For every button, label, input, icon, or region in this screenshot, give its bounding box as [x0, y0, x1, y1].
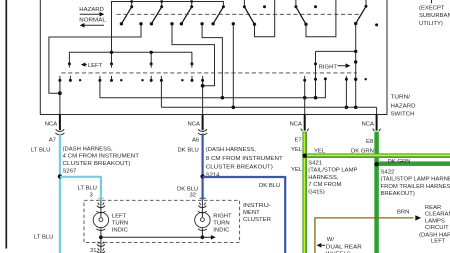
turn/hazard switch box — [40, 0, 387, 115]
svg-text:NCA: NCA — [45, 122, 58, 128]
label NORMAL with arrow — [79, 17, 106, 27]
svg-text:HAZARD: HAZARD — [79, 7, 104, 13]
svg-text:YEL: YEL — [291, 167, 303, 173]
splice S422 — [374, 162, 379, 167]
svg-text:(TAIL/STOP LAMP: (TAIL/STOP LAMP — [308, 168, 357, 174]
hazard lamp bridge 1 pivot — [243, 0, 256, 26]
label (DASH HARNESS, 4 CM FROM INSTRUMENT CLUSTER BREAKOUT) S267 — [63, 146, 140, 174]
wire: contact to rail2 — [160, 76, 163, 107]
svg-text:DK BLU: DK BLU — [259, 183, 280, 189]
svg-text:DK BLU: DK BLU — [178, 148, 199, 154]
free contact dot — [314, 5, 317, 8]
svg-text:INSTRU-: INSTRU- — [243, 203, 271, 209]
lamp L1 ground wire — [100, 228, 102, 253]
instrument cluster dashed box — [84, 200, 240, 242]
svg-text:4 CM FROM INSTRUMENT: 4 CM FROM INSTRUMENT — [63, 154, 140, 160]
splice S214 — [200, 174, 204, 178]
hazard lamp bridge 2 pivot — [294, 0, 307, 26]
ground rail junction — [99, 235, 103, 239]
label INSTRU-MENT CLUSTER — [243, 203, 271, 223]
svg-text:31: 31 — [90, 248, 97, 253]
svg-text:NORMAL: NORMAL — [79, 17, 106, 23]
right turn switch pole — [354, 0, 368, 25]
free contact dot — [375, 23, 378, 26]
turn upper contacts — [68, 62, 193, 67]
wire BRN — [315, 218, 414, 253]
wire DK BLU main — [202, 134, 204, 200]
label LEFT TURN INDIC — [112, 214, 129, 234]
svg-text:LT BLU: LT BLU — [31, 148, 50, 154]
hazard lamp bridge 1 — [255, 0, 275, 37]
rail2 — [161, 106, 376, 110]
right feed rail — [316, 50, 356, 52]
pin 31 connector — [97, 242, 105, 247]
svg-text:INDIC: INDIC — [213, 228, 230, 234]
turn lower contacts group 2 — [110, 76, 123, 82]
lamp L1 pin 3 connector — [97, 203, 105, 208]
svg-text:RIGHT: RIGHT — [319, 65, 338, 71]
label TURN/HAZARD SWITCH — [391, 94, 416, 117]
svg-text:32: 32 — [190, 193, 197, 199]
svg-text:YEL: YEL — [314, 148, 326, 154]
wire: hazard contact 3 to rail1 — [202, 25, 222, 98]
svg-text:HAZARD: HAZARD — [391, 103, 416, 109]
svg-text:FROM TRAILER HARNESS: FROM TRAILER HARNESS — [381, 184, 450, 190]
wire LT BLU main — [59, 134, 61, 253]
svg-text:NCA: NCA — [362, 121, 375, 127]
svg-text:G415): G415) — [308, 189, 324, 195]
splice S421 — [302, 153, 307, 158]
label (EXECPT SUBURBAN, UTILITY) — [419, 6, 450, 27]
label REAR CLEARANCE LAMPS CIRCUIT — [425, 205, 450, 231]
svg-text:(EXECPT: (EXECPT — [419, 6, 445, 12]
wire: right pole down to rail2 — [354, 24, 357, 108]
label S421 (TAIL/STOP LAMP HARNESS, 7 CM FROM G415) — [308, 161, 357, 196]
rail junction at lamp 2 — [201, 235, 205, 239]
wire: contact to rail2 — [345, 76, 348, 107]
svg-text:(DASH HARNESS,: (DASH HARNESS, — [63, 146, 113, 152]
svg-text:YEL: YEL — [291, 147, 303, 153]
W/ DUAL REAR WHEELS pointer — [317, 243, 326, 248]
svg-text:SUBURBAN,: SUBURBAN, — [419, 13, 450, 19]
wire: contact to rail1 — [98, 76, 101, 98]
svg-text:LEFT: LEFT — [112, 214, 127, 220]
wire: hazard contact 1 to A7 junction — [49, 25, 141, 93]
hazard linkage dashed line — [117, 13, 359, 15]
svg-text:DK BLU: DK BLU — [177, 186, 198, 192]
svg-text:CLUSTER BREAKOUT): CLUSTER BREAKOUT) — [63, 161, 131, 167]
right turn indicator bulb — [195, 211, 210, 230]
svg-text:LT BLU: LT BLU — [34, 234, 53, 240]
free contact dot — [365, 78, 367, 80]
turn lower contacts group 1 — [69, 76, 81, 82]
svg-text:A6: A6 — [192, 138, 200, 144]
turn linkage dashed line — [61, 72, 357, 74]
svg-text:TURN: TURN — [213, 221, 229, 227]
svg-text:NCA: NCA — [290, 121, 303, 127]
left harness edge line — [5, 0, 7, 249]
wire A7 lead to connector — [59, 115, 61, 131]
label S422 (TAIL/STOP LAMP HARNESS, FROM TRAILER HARNESS BREAKOUT) — [381, 170, 450, 198]
wire: right rail drop to rail1 — [314, 51, 317, 97]
svg-text:MENT: MENT — [243, 210, 260, 216]
svg-text:BRN: BRN — [397, 210, 409, 216]
label (DASH HARNESS, 8 CM FROM INSTRUMENT CLUSTER BREAKOUT) S214 — [206, 147, 283, 178]
lamp L2 pin 32 connector — [198, 203, 206, 208]
connector A7 — [55, 129, 64, 135]
pin tick 32 — [200, 197, 206, 199]
wire: hazard contact 2 to A6 junction — [172, 25, 215, 86]
wire: A7 contact down through box — [58, 76, 62, 115]
wire YEL branch to right edge — [305, 153, 450, 158]
wire A6 lead to connector — [202, 115, 204, 131]
rail continuation arrow — [202, 235, 215, 240]
hazard switch pole 3 — [180, 2, 194, 26]
svg-text:DK GRN: DK GRN — [351, 148, 374, 154]
svg-text:LEFT: LEFT — [88, 63, 103, 69]
splice S267 — [58, 174, 62, 178]
svg-text:TURN: TURN — [112, 221, 128, 227]
wire DK GRN main — [374, 132, 379, 253]
svg-text:CLUSTER: CLUSTER — [243, 217, 271, 223]
wire: hazard contact 4 to rail2 — [232, 25, 234, 107]
turn feed rail — [69, 52, 191, 64]
turn lower contacts group 4 — [181, 76, 193, 82]
wire LT BLU branch to cluster — [60, 177, 101, 200]
svg-text:CLEARANCE: CLEARANCE — [425, 212, 450, 218]
svg-text:SWITCH: SWITCH — [391, 111, 415, 117]
lamp L2 bottom lead — [201, 228, 203, 238]
wire DK BLU branch to bottom — [203, 177, 286, 253]
svg-text:8 CM FROM INSTRUMENT: 8 CM FROM INSTRUMENT — [206, 156, 283, 162]
wire: A6 contact down through box — [201, 76, 205, 115]
svg-text:E7: E7 — [295, 138, 302, 144]
hazard fixed contacts — [139, 22, 235, 25]
lamp L2 lead — [201, 200, 203, 213]
label W/ DUAL REAR WHEELS — [326, 237, 362, 253]
svg-text:(DASH HARNESS,: (DASH HARNESS, — [206, 147, 256, 153]
svg-text:W/: W/ — [327, 237, 335, 243]
rail1 — [100, 77, 327, 99]
rail drops — [111, 52, 113, 64]
svg-text:(TAIL/STOP LAMP HARNESS,: (TAIL/STOP LAMP HARNESS, — [381, 177, 450, 183]
svg-text:TURN/: TURN/ — [391, 94, 411, 100]
svg-text:CLUSTER BREAKOUT): CLUSTER BREAKOUT) — [206, 164, 273, 170]
connector E7 — [301, 129, 309, 131]
svg-text:REAR: REAR — [425, 205, 441, 211]
wire E8 lead to connector — [376, 115, 378, 131]
svg-text:S421: S421 — [308, 161, 322, 167]
wire: E7 contact to rail1 — [303, 76, 306, 98]
wire stub top right — [431, 0, 433, 3]
svg-text:S422: S422 — [381, 170, 395, 176]
svg-text:BREAKOUT): BREAKOUT) — [381, 191, 415, 197]
wire YEL main — [302, 132, 307, 253]
svg-text:DK GRN: DK GRN — [388, 159, 411, 165]
wire: E8 drop below rail2 — [376, 107, 378, 114]
label HAZARD with arrow — [79, 7, 104, 17]
wire E7 lead to connector — [304, 115, 306, 131]
hazard switch pole 2 — [150, 2, 164, 26]
svg-text:LT BLU: LT BLU — [78, 186, 97, 192]
hazard lamp bridge 2 — [306, 0, 336, 37]
hazard feed bus — [112, 2, 224, 53]
label RIGHT TURN INDIC — [213, 214, 232, 234]
free contact dot — [263, 5, 266, 8]
svg-text:A7: A7 — [49, 138, 56, 144]
wire: E7 drop below rail1 — [304, 98, 306, 115]
turn lower contacts group 3 — [141, 76, 152, 82]
connector A6 — [198, 129, 207, 135]
hazard switch pole 1 — [120, 2, 133, 26]
pin tick 3 — [98, 197, 104, 199]
svg-text:LAMPS: LAMPS — [425, 218, 445, 224]
svg-text:LEFT: LEFT — [431, 239, 446, 245]
wire DK GRN branch to right edge — [377, 161, 450, 166]
svg-text:HARNESS,: HARNESS, — [308, 175, 338, 181]
svg-text:UTILITY): UTILITY) — [419, 21, 443, 27]
svg-text:7 CM FROM: 7 CM FROM — [308, 182, 341, 188]
svg-text:S267: S267 — [63, 169, 77, 175]
cluster ground rail — [101, 236, 202, 238]
label RIGHT with arrow — [319, 63, 351, 70]
connector E8 — [373, 129, 381, 131]
svg-text:E8: E8 — [366, 139, 374, 145]
svg-text:RIGHT: RIGHT — [213, 214, 232, 220]
label LEFT with arrow — [81, 62, 103, 69]
hazard switch pole 4 — [211, 5, 224, 25]
BRN arrow to rear lamps circuit — [415, 215, 421, 220]
bus junction dots — [130, 0, 193, 3]
svg-text:CIRCUIT: CIRCUIT — [425, 225, 449, 231]
left turn indicator bulb — [93, 211, 108, 230]
svg-text:NCA: NCA — [188, 121, 201, 127]
label (DASH HARNESS, LEFT — [419, 233, 450, 245]
svg-text:DUAL REAR: DUAL REAR — [326, 244, 362, 250]
lamp L1 lead — [100, 200, 102, 213]
svg-text:INDIC: INDIC — [112, 228, 129, 234]
inline connector below 31 — [97, 248, 105, 253]
